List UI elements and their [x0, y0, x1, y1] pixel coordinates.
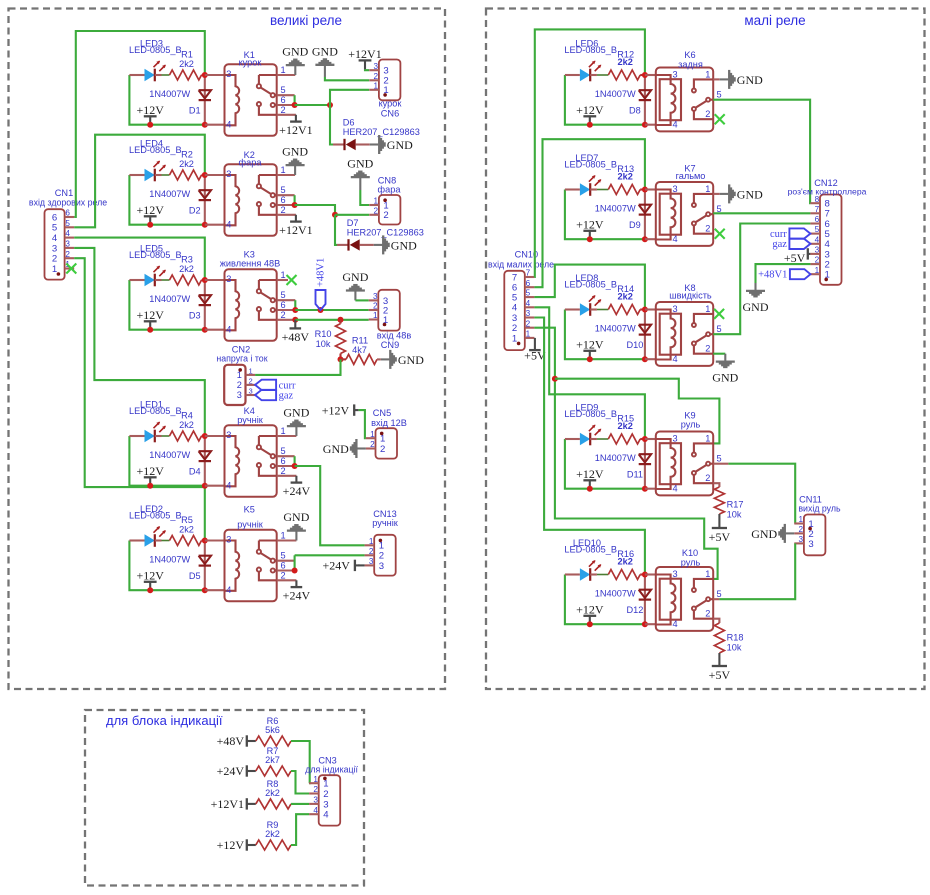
- svg-text:2k2: 2k2: [179, 420, 194, 430]
- svg-text:2k2: 2k2: [179, 159, 194, 169]
- svg-text:+5V: +5V: [709, 530, 731, 544]
- resistor R4: [170, 431, 202, 441]
- ground GND K7: [720, 193, 729, 195]
- power +12V: [589, 231, 591, 239]
- svg-text:1: 1: [799, 515, 804, 524]
- resistor R5: [170, 536, 202, 546]
- LED LED5: [145, 274, 155, 287]
- svg-text:+12V: +12V: [136, 203, 164, 217]
- svg-text:1: 1: [52, 264, 57, 275]
- svg-text:2k2: 2k2: [179, 525, 194, 535]
- svg-text:3: 3: [672, 433, 677, 443]
- svg-text:D1: D1: [189, 105, 201, 115]
- svg-text:GND: GND: [282, 145, 308, 159]
- wire CN1.4 to K3 node: [74, 238, 205, 280]
- diode D11: [644, 439, 646, 489]
- global label +48V1: [316, 290, 326, 310]
- resistor R6: [256, 736, 291, 746]
- ground GND middle top: [324, 66, 326, 77]
- svg-text:GND: GND: [282, 45, 308, 59]
- svg-text:1: 1: [526, 330, 531, 339]
- svg-text:2: 2: [370, 440, 375, 449]
- wire K9 pin2 to R17: [713, 483, 719, 487]
- hier label gaz: [255, 390, 276, 400]
- wire CN1.5 to K2 node: [74, 135, 205, 228]
- wire R7 to CN3 pin2: [291, 771, 309, 794]
- diode D1: [204, 75, 206, 125]
- ground GND CN5: [357, 447, 366, 449]
- power +12V1 R8: [246, 798, 248, 809]
- svg-text:LED-0805_B: LED-0805_B: [129, 250, 182, 260]
- svg-text:5: 5: [280, 85, 285, 95]
- wire K4 pin2 to +24V: [277, 475, 297, 477]
- connector CN9: [378, 290, 400, 331]
- ground GND D6: [370, 143, 379, 145]
- svg-text:D6: D6: [343, 117, 355, 127]
- relay K6: [656, 68, 713, 132]
- svg-text:5: 5: [65, 219, 70, 228]
- svg-text:+12V: +12V: [136, 568, 164, 582]
- svg-text:LED-0805_B: LED-0805_B: [129, 45, 182, 55]
- svg-text:вхід малих реле: вхід малих реле: [488, 259, 554, 269]
- svg-text:6: 6: [526, 279, 531, 288]
- svg-text:3: 3: [799, 535, 804, 544]
- svg-text:R17: R17: [727, 500, 744, 510]
- power +12V: [589, 116, 591, 124]
- junctions: [642, 572, 648, 578]
- svg-text:2: 2: [383, 210, 388, 221]
- junctions: [202, 433, 208, 439]
- power +5V CN12 pin3: [807, 248, 809, 259]
- resistor R16: [608, 570, 640, 580]
- ground GND CN9: [354, 291, 356, 300]
- svg-text:4: 4: [226, 219, 231, 229]
- svg-text:LED-0805_B: LED-0805_B: [129, 510, 182, 520]
- svg-text:+12V1: +12V1: [279, 123, 312, 137]
- junctions: [642, 187, 648, 193]
- svg-text:3: 3: [226, 535, 231, 545]
- svg-text:10k: 10k: [727, 643, 742, 653]
- wire LED5 loop: [129, 280, 204, 330]
- svg-text:1N4007W: 1N4007W: [149, 450, 190, 460]
- resistor R13: [608, 185, 640, 195]
- resistor R14: [608, 305, 640, 315]
- junctions: [642, 436, 648, 442]
- hier label curr: [255, 380, 276, 390]
- svg-text:4: 4: [226, 585, 231, 595]
- svg-text:2: 2: [705, 473, 710, 483]
- ground GND K6: [720, 78, 729, 80]
- svg-text:2: 2: [280, 570, 285, 580]
- resistor R18: [714, 623, 724, 653]
- ground GND K8: [724, 354, 726, 361]
- svg-text:+12V: +12V: [322, 403, 350, 417]
- svg-text:1: 1: [249, 366, 253, 375]
- diode D5: [204, 541, 206, 591]
- svg-text:D9: D9: [629, 220, 641, 230]
- LED LED8: [580, 303, 590, 316]
- svg-text:LED-0805_B: LED-0805_B: [564, 45, 617, 55]
- wire K5 pin1 to GND: [277, 539, 297, 541]
- svg-text:+5V: +5V: [524, 349, 546, 363]
- svg-text:+12V: +12V: [576, 217, 604, 231]
- svg-text:2k2: 2k2: [618, 557, 633, 567]
- ground GND D7: [374, 244, 383, 246]
- connector CN1: [45, 209, 65, 279]
- svg-text:5: 5: [280, 446, 285, 456]
- svg-text:1N4007W: 1N4007W: [595, 203, 636, 213]
- connector CN3: [319, 775, 341, 825]
- svg-text:GND: GND: [391, 238, 417, 252]
- diode D7: [337, 244, 349, 246]
- svg-text:роз'єм контроллера: роз'єм контроллера: [788, 186, 867, 196]
- relay K3: [225, 269, 277, 341]
- svg-text:2k2: 2k2: [618, 57, 633, 67]
- svg-text:3: 3: [226, 169, 231, 179]
- power +12V: [589, 351, 591, 359]
- svg-text:R10: R10: [315, 329, 332, 339]
- power +12V1 top: [364, 60, 366, 69]
- svg-text:CN6: CN6: [381, 109, 399, 119]
- svg-text:2: 2: [249, 376, 253, 385]
- svg-text:1: 1: [815, 266, 820, 275]
- svg-text:+5V: +5V: [784, 251, 806, 265]
- svg-text:+12V: +12V: [576, 103, 604, 117]
- svg-text:3: 3: [672, 569, 677, 579]
- wire K1 pin5/6 junction: [277, 94, 295, 96]
- power +48V: [294, 320, 296, 329]
- power +12V1 K1: [295, 115, 297, 122]
- svg-text:2: 2: [323, 789, 328, 800]
- svg-text:D5: D5: [189, 571, 201, 581]
- svg-text:6: 6: [65, 209, 70, 218]
- svg-text:4: 4: [672, 354, 677, 364]
- diode D4: [204, 436, 206, 486]
- wire K6 pin1 to GND: [713, 78, 720, 80]
- power +12V1 K2: [295, 215, 297, 222]
- svg-text:GND: GND: [751, 527, 777, 541]
- wire K10 pin2 to R18: [713, 619, 719, 623]
- svg-text:2: 2: [373, 302, 378, 311]
- svg-text:1: 1: [705, 569, 710, 579]
- svg-text:+48V: +48V: [217, 734, 245, 748]
- resistor R1: [170, 70, 202, 80]
- wire CN1.2 to K5 node: [74, 258, 205, 540]
- diode D2: [204, 175, 206, 225]
- svg-text:+12V1: +12V1: [211, 797, 244, 811]
- svg-text:LED-0805_B: LED-0805_B: [564, 544, 617, 554]
- svg-text:GND: GND: [737, 73, 763, 87]
- svg-text:6: 6: [280, 95, 285, 105]
- wire K2 pin5/6 junction: [277, 194, 295, 196]
- wire K10 pin5 to CN11 pin3: [713, 598, 719, 600]
- wire pin6 row to CN9 pin2: [295, 309, 368, 311]
- svg-text:1N4007W: 1N4007W: [149, 554, 190, 564]
- svg-text:1: 1: [705, 304, 710, 314]
- svg-text:6: 6: [815, 215, 820, 224]
- svg-text:1: 1: [313, 775, 318, 784]
- svg-text:вхід 48в: вхід 48в: [377, 331, 412, 341]
- svg-text:2: 2: [526, 319, 531, 328]
- wire K3 pin2 row to CN9 pin1: [277, 319, 296, 321]
- resistor R10: [339, 320, 341, 324]
- svg-text:2: 2: [65, 250, 70, 259]
- svg-text:3: 3: [313, 796, 318, 805]
- relay K8: [656, 302, 713, 366]
- power +12V: [149, 582, 151, 590]
- resistor R9: [256, 840, 291, 850]
- svg-text:4: 4: [226, 119, 231, 129]
- connector CN12: [820, 195, 842, 285]
- svg-text:2: 2: [369, 547, 374, 556]
- svg-text:D4: D4: [189, 466, 201, 476]
- svg-text:R18: R18: [727, 633, 744, 643]
- svg-text:D10: D10: [626, 340, 643, 350]
- sheet box: малі реле: [486, 9, 925, 690]
- svg-text:GND: GND: [312, 44, 338, 58]
- svg-text:ручнік: ручнік: [372, 518, 399, 528]
- power +12V: [149, 216, 151, 224]
- svg-text:фара: фара: [378, 184, 402, 194]
- svg-text:1N4007W: 1N4007W: [149, 294, 190, 304]
- resistor R15: [608, 434, 640, 444]
- no-connect K7 pin2: [715, 229, 725, 239]
- svg-text:1: 1: [512, 333, 517, 344]
- ground GND K4: [295, 427, 297, 436]
- svg-text:R4: R4: [181, 411, 193, 421]
- wire LED7 loop: [565, 190, 645, 240]
- svg-text:7: 7: [815, 205, 820, 214]
- svg-text:GND: GND: [387, 138, 413, 152]
- svg-text:курок: курок: [239, 58, 263, 68]
- svg-text:3: 3: [226, 274, 231, 284]
- wire K7 pin5 to CN12 pin7: [713, 212, 810, 214]
- svg-text:3: 3: [808, 539, 813, 550]
- power +5V R17: [712, 527, 727, 529]
- svg-text:R2: R2: [181, 150, 193, 160]
- svg-text:3: 3: [379, 561, 384, 572]
- LED LED6: [580, 69, 590, 82]
- svg-text:1: 1: [705, 70, 710, 80]
- wire K2 pin2 to +12V1: [277, 214, 296, 216]
- wire CN10.4 to K9 node: [534, 307, 645, 439]
- svg-text:1: 1: [373, 311, 378, 320]
- ground GND CN8: [359, 178, 361, 190]
- svg-text:5: 5: [716, 454, 721, 464]
- svg-text:LED-0805_B: LED-0805_B: [129, 145, 182, 155]
- ground GND K5: [295, 532, 297, 541]
- svg-text:5: 5: [716, 324, 721, 334]
- resistor R17: [714, 487, 724, 514]
- svg-text:+12V: +12V: [576, 602, 604, 616]
- wire K6 pin5 to CN12 pin8: [713, 100, 810, 204]
- svg-text:D12: D12: [626, 605, 643, 615]
- wire LED10 loop: [565, 575, 645, 625]
- LED LED4: [145, 169, 155, 182]
- svg-text:2: 2: [374, 72, 379, 81]
- svg-text:напруга і ток: напруга і ток: [216, 354, 267, 364]
- svg-text:4k7: 4k7: [352, 345, 367, 355]
- connector CN5: [376, 428, 398, 458]
- diode D3: [204, 280, 206, 330]
- svg-text:2k2: 2k2: [618, 172, 633, 182]
- svg-text:GND: GND: [712, 371, 738, 385]
- wire LED6 loop: [565, 75, 645, 125]
- wire R10/R11 to CN2 pin1: [255, 359, 340, 375]
- svg-text:+12V: +12V: [217, 838, 245, 852]
- svg-text:для блока індикації: для блока індикації: [106, 713, 223, 728]
- svg-text:1: 1: [705, 184, 710, 194]
- wire to CN8 pin2: [335, 214, 369, 216]
- svg-text:GND: GND: [283, 406, 309, 420]
- svg-text:2: 2: [280, 105, 285, 115]
- svg-text:малі реле: малі реле: [744, 13, 805, 28]
- wire LED4 loop: [129, 175, 204, 225]
- svg-text:1: 1: [705, 434, 710, 444]
- svg-text:4: 4: [672, 234, 677, 244]
- svg-text:живлення 48В: живлення 48В: [220, 259, 280, 269]
- svg-text:2k2: 2k2: [618, 292, 633, 302]
- svg-text:+12V1: +12V1: [348, 47, 381, 61]
- svg-text:1: 1: [280, 65, 285, 75]
- svg-text:2: 2: [799, 525, 804, 534]
- sheet box: для блока індикації: [85, 710, 364, 886]
- power +48V R6: [246, 735, 248, 746]
- svg-text:4: 4: [226, 480, 231, 490]
- wire CN10.3 to K10 node: [534, 318, 645, 575]
- svg-text:+48V1: +48V1: [316, 258, 327, 287]
- wire common to K9 pin1: [555, 379, 720, 444]
- wire K4 pin5/6 junction: [277, 455, 295, 457]
- power +24V K4: [295, 476, 297, 483]
- connector CN11: [804, 515, 826, 556]
- wire CN10.5 to K8 node: [534, 265, 645, 310]
- wire K9 pin5 to CN11 pin1: [713, 463, 728, 465]
- diode D10: [644, 310, 646, 360]
- svg-text:D8: D8: [629, 105, 641, 115]
- power +24V K5: [295, 580, 297, 587]
- svg-text:2k2: 2k2: [179, 59, 194, 69]
- svg-text:1: 1: [374, 81, 379, 90]
- svg-text:CN9: CN9: [381, 340, 399, 350]
- ground GND K1: [294, 66, 296, 75]
- svg-text:CN5: CN5: [373, 408, 391, 418]
- wire K5 pin5/6 junction: [277, 560, 295, 562]
- relay K1: [225, 64, 277, 136]
- ground GND CN11: [786, 532, 795, 534]
- svg-text:1N4007W: 1N4007W: [595, 323, 636, 333]
- svg-text:ручнік: ручнік: [237, 520, 264, 530]
- no-connect CN1 pin1: [66, 264, 76, 274]
- svg-text:4: 4: [65, 229, 70, 238]
- svg-text:фара: фара: [239, 158, 263, 168]
- svg-text:1: 1: [280, 426, 285, 436]
- power +24V R7: [246, 765, 248, 776]
- wire LED9 loop: [565, 439, 645, 489]
- svg-text:ручнік: ручнік: [237, 415, 264, 425]
- junctions: [202, 72, 208, 78]
- wire K5 pin2 to +24V: [277, 579, 297, 581]
- svg-text:6: 6: [280, 456, 285, 466]
- global label +48V1 CN12: [790, 269, 811, 279]
- junctions: [202, 277, 208, 283]
- svg-text:D7: D7: [347, 218, 359, 228]
- diode D6: [333, 143, 345, 145]
- junctions: [202, 172, 208, 178]
- svg-text:GND: GND: [743, 300, 769, 314]
- svg-text:2: 2: [313, 785, 318, 794]
- wire K8 pin2 to GND: [713, 353, 725, 355]
- svg-text:1: 1: [280, 165, 285, 175]
- wire K7 pin1 to GND: [713, 193, 720, 195]
- svg-text:4: 4: [226, 324, 231, 334]
- svg-text:великі реле: великі реле: [270, 13, 342, 28]
- svg-text:гальмо: гальмо: [676, 171, 706, 181]
- svg-text:HER207_C129863: HER207_C129863: [347, 228, 424, 238]
- svg-text:1N4007W: 1N4007W: [595, 588, 636, 598]
- svg-text:швидкість: швидкість: [669, 291, 712, 301]
- LED LED7: [580, 183, 590, 196]
- wire K2 pin1 to GND: [277, 174, 295, 176]
- svg-text:D2: D2: [189, 205, 201, 215]
- wire LED2 loop: [129, 541, 204, 591]
- svg-text:3: 3: [237, 390, 242, 400]
- svg-text:4: 4: [672, 120, 677, 130]
- svg-text:GND: GND: [323, 442, 349, 456]
- svg-text:R1: R1: [181, 50, 193, 60]
- svg-text:3: 3: [672, 304, 677, 314]
- power +24V CN13: [354, 560, 356, 571]
- power +5V CN10 pin1: [534, 338, 536, 350]
- wire K1 pin2 to +12V1: [277, 114, 296, 116]
- power +12V: [589, 480, 591, 488]
- ground GND K2: [294, 166, 296, 175]
- svg-text:LED-0805_B: LED-0805_B: [129, 406, 182, 416]
- svg-text:5k6: 5k6: [265, 725, 280, 735]
- wire to CN6 pin1: [330, 90, 369, 105]
- svg-text:HER207_C129863: HER207_C129863: [343, 127, 420, 137]
- no-connect K8 pin1: [714, 309, 724, 319]
- LED LED1: [145, 430, 155, 443]
- wire to D7: [335, 215, 337, 245]
- svg-text:5: 5: [716, 90, 721, 100]
- svg-text:GND: GND: [283, 510, 309, 524]
- svg-text:6: 6: [280, 300, 285, 310]
- svg-text:5: 5: [280, 290, 285, 300]
- svg-text:2: 2: [280, 205, 285, 215]
- svg-text:руль: руль: [681, 558, 701, 568]
- ground GND R11: [381, 358, 390, 360]
- svg-text:+12V: +12V: [136, 308, 164, 322]
- svg-text:+48V: +48V: [282, 330, 310, 344]
- LED LED9: [580, 433, 590, 446]
- svg-text:1: 1: [369, 537, 374, 546]
- svg-text:4: 4: [672, 619, 677, 629]
- svg-text:2: 2: [705, 344, 710, 354]
- svg-text:для індикації: для індикації: [305, 764, 358, 774]
- svg-text:2k2: 2k2: [179, 264, 194, 274]
- svg-text:3: 3: [672, 184, 677, 194]
- svg-text:+12V: +12V: [136, 464, 164, 478]
- svg-text:1N4007W: 1N4007W: [149, 89, 190, 99]
- svg-text:1: 1: [237, 370, 242, 380]
- svg-text:GND: GND: [347, 157, 373, 171]
- svg-text:6: 6: [280, 195, 285, 205]
- relay K5: [225, 530, 277, 602]
- svg-text:2k7: 2k7: [265, 755, 280, 765]
- svg-text:2: 2: [374, 206, 379, 215]
- svg-text:2: 2: [705, 609, 710, 619]
